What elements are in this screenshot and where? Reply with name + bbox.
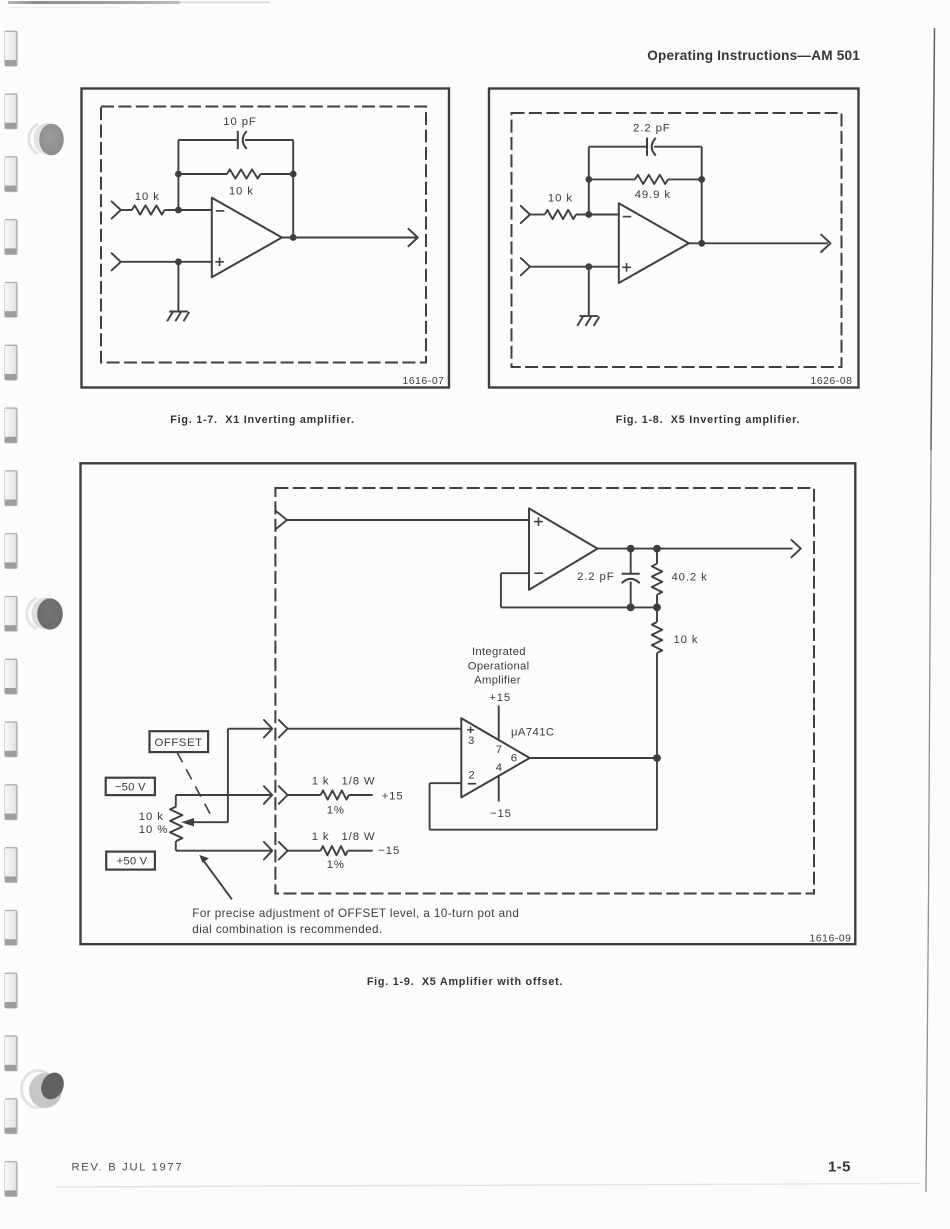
fig 1-7 wire feedback top (through capacitor) — [178, 139, 237, 141]
fig 1-9 wire U2 feedback loop — [430, 782, 462, 784]
fig 1-9 wire signal input — [287, 519, 529, 521]
fig 1-9 resistor R 1 k (middle) — [288, 794, 321, 796]
fig 1-7 op-amp non-inverting input marker (plus) — [215, 261, 224, 263]
fig 1-7 input terminal 2 (non-inverting) — [112, 253, 121, 270]
svg-text:1/8 W: 1/8 W — [341, 775, 375, 787]
svg-text:dial combination is recommende: dial combination is recommended. — [192, 923, 382, 936]
fig 1-9 node U2 output — [653, 754, 661, 762]
fig 1-7 node feedback left — [175, 171, 182, 178]
fig 1-9 offset input terminal (double chevron) — [264, 720, 272, 738]
fig 1-7 node feedback right — [290, 171, 297, 178]
fig 1-7 input terminal 1 (inverting path) — [112, 201, 121, 218]
svg-text:1616-09: 1616-09 — [810, 933, 852, 944]
svg-text:Operational: Operational — [468, 660, 530, 672]
fig 1-9 dashed link OFFSET to wiper — [177, 752, 214, 821]
fig 1-9 op-amp U1 (X5 amplifier) — [529, 508, 598, 589]
fig 1-8 node at inverting input — [585, 211, 592, 218]
fig 1-9 OFFSET control box — [150, 731, 209, 752]
fig 1-9 U1 non-inverting marker (plus) — [534, 521, 543, 523]
fig 1-7 node output — [290, 234, 297, 241]
fig 1-7 capacitor C 10 pF — [237, 131, 239, 149]
fig 1-9 resistor R 1 k (bottom) — [288, 850, 321, 852]
svg-text:−50 V: −50 V — [115, 781, 146, 793]
fig 1-8 capacitor C 2.2 pF — [646, 138, 648, 156]
svg-text:6: 6 — [511, 752, 517, 764]
figure 1-9 frame — [81, 463, 856, 944]
fig 1-9 label -50 V box — [106, 778, 155, 795]
svg-text:7: 7 — [496, 744, 502, 756]
svg-text:+15: +15 — [382, 790, 404, 802]
fig 1-9 terminal -15 feed (double chevron) — [264, 842, 272, 860]
fig 1-8 resistor R 49.9 k feedback — [635, 175, 668, 184]
svg-text:Fig. 1-9. X5 Amplifier with o: Fig. 1-9. X5 Amplifier with offset. — [367, 976, 563, 988]
svg-text:1 k: 1 k — [312, 831, 330, 843]
svg-text:4: 4 — [496, 762, 502, 774]
fig 1-9 potentiometer wiper arrow — [192, 821, 228, 823]
svg-text:1-5: 1-5 — [828, 1159, 851, 1176]
fig 1-9 potentiometer R 10 k — [175, 795, 177, 807]
fig 1-9 op-amp U2 uA741C — [461, 718, 529, 797]
svg-text:10 pF: 10 pF — [223, 116, 256, 128]
fig 1-9 capacitor C 2.2 pF (vertical) — [630, 549, 632, 574]
fig 1-9 wire pin 7 supply — [498, 706, 500, 741]
fig 1-7 resistor R 10 k input — [132, 205, 165, 214]
svg-text:10 k: 10 k — [548, 193, 573, 205]
fig 1-8 output arrow — [821, 235, 830, 252]
svg-text:1/8 W: 1/8 W — [341, 831, 375, 843]
fig 1-9 wire wiper riser — [227, 729, 229, 823]
svg-text:3: 3 — [468, 735, 474, 747]
fig 1-9 label +50 V box — [106, 852, 155, 870]
svg-text:10 k: 10 k — [674, 634, 699, 646]
fig 1-8 input terminal 1 (inverting path) — [521, 206, 530, 223]
fig 1-8 node at non-inverting input — [585, 263, 592, 270]
svg-text:1626-08: 1626-08 — [811, 376, 853, 387]
fig 1-9 wire U1 output — [598, 548, 793, 550]
svg-text:Integrated: Integrated — [472, 646, 526, 658]
fig 1-7 wire to ground — [177, 262, 179, 312]
fig 1-8 wire non-inverting input — [530, 266, 619, 268]
fig 1-9 resistor R 10 k (vertical) — [656, 607, 658, 622]
fig 1-8 amplifier boundary (dashed) — [512, 113, 842, 367]
fig 1-7 wire input to inverting input — [121, 209, 132, 211]
svg-text:10 k: 10 k — [229, 186, 254, 198]
fig 1-9 node output-capacitor — [627, 545, 635, 553]
svg-text:For precise adjustment of OFFS: For precise adjustment of OFFSET level, … — [192, 907, 519, 920]
fig 1-8 op-amp U1 — [619, 203, 689, 283]
svg-text:49.9 k: 49.9 k — [635, 189, 671, 201]
fig 1-8 op-amp inverting input marker (minus) — [623, 216, 632, 218]
fig 1-8 resistor R 10 k input — [545, 210, 576, 219]
svg-text:−15: −15 — [490, 808, 512, 820]
fig 1-9 node output-resistor — [653, 545, 661, 553]
fig 1-9 wire U2 output — [530, 757, 657, 759]
fig 1-9 U1 inverting marker (minus) — [534, 572, 543, 574]
fig 1-9 amplifier boundary (dashed) — [275, 488, 814, 894]
fig 1-8 wire to ground — [588, 267, 590, 316]
fig 1-8 wire output — [689, 242, 828, 244]
fig 1-7 resistor R 10 k feedback — [227, 169, 261, 178]
svg-text:OFFSET: OFFSET — [155, 737, 203, 749]
fig 1-9 wire feedback rail — [501, 606, 657, 608]
fig 1-8 ground — [579, 315, 598, 317]
svg-text:1%: 1% — [327, 805, 345, 817]
svg-text:Amplifier: Amplifier — [474, 675, 521, 687]
fig 1-8 wire feedback top (through capacitor) — [589, 146, 646, 148]
svg-text:μA741C: μA741C — [511, 727, 554, 739]
svg-text:1616-07: 1616-07 — [403, 376, 445, 387]
svg-text:10 %: 10 % — [139, 824, 168, 836]
fig 1-9 wire pot bottom rail — [176, 850, 272, 852]
svg-text:+50 V: +50 V — [117, 855, 148, 867]
fig 1-8 wire feedback resistor row — [589, 178, 635, 180]
fig 1-7 output arrow — [408, 229, 417, 246]
fig 1-9 note pointer arrow — [204, 861, 232, 900]
fig 1-8 op-amp non-inverting input marker (plus) — [622, 266, 631, 268]
fig 1-9 node feedback-capacitor — [627, 604, 635, 612]
fig 1-9 wire offset terminal to U2 pin3 — [228, 728, 272, 730]
svg-text:2.2 pF: 2.2 pF — [577, 571, 614, 583]
fig 1-7 op-amp U1 — [212, 198, 282, 277]
fig 1-8 node output — [698, 240, 705, 247]
fig 1-8 node feedback left — [585, 176, 592, 183]
fig 1-9 wire pot top rail — [176, 794, 272, 796]
figure 1-7 frame — [82, 89, 450, 388]
svg-text:40.2 k: 40.2 k — [672, 572, 708, 584]
fig 1-8 wire feedback left vertical — [588, 147, 590, 215]
fig 1-7 wire feedback left vertical — [177, 140, 179, 210]
svg-text:1 k: 1 k — [312, 775, 330, 787]
fig 1-9 resistor R 40.2 k (vertical) — [656, 549, 658, 564]
fig 1-9 wire U1 inverting feedback — [501, 572, 529, 574]
svg-text:+15: +15 — [489, 692, 511, 704]
fig 1-9 U2 plus marker (pin 3 input) — [467, 729, 474, 731]
fig 1-8 wire feedback right vertical — [701, 147, 703, 244]
fig 1-7 wire feedback right vertical — [292, 140, 294, 238]
fig 1-7 op-amp inverting input marker (minus) — [216, 210, 225, 212]
fig 1-7 node at non-inverting input — [175, 258, 182, 265]
figure 1-8 frame — [489, 89, 859, 388]
fig 1-9 terminal +15 feed (double chevron) — [264, 786, 272, 804]
fig 1-9 signal input terminal — [276, 511, 287, 529]
fig 1-9 output arrow — [791, 540, 800, 557]
svg-text:10 k: 10 k — [135, 191, 160, 203]
fig 1-7 wire output — [282, 237, 417, 239]
fig 1-7 ground — [169, 311, 188, 313]
svg-text:−15: −15 — [378, 845, 400, 857]
svg-text:2: 2 — [468, 769, 474, 781]
fig 1-7 node at inverting input — [175, 207, 182, 214]
svg-text:Operating Instructions—AM 501: Operating Instructions—AM 501 — [647, 48, 860, 63]
svg-text:2.2 pF: 2.2 pF — [633, 123, 670, 135]
fig 1-7 wire feedback resistor row — [178, 173, 227, 175]
fig 1-7 wire non-inverting input — [121, 261, 212, 263]
svg-text:Fig. 1-7. X1 Inverting amplif: Fig. 1-7. X1 Inverting amplifier. — [170, 414, 355, 426]
fig 1-8 node feedback right — [698, 176, 705, 183]
fig 1-8 wire input to inverting input — [530, 214, 545, 216]
svg-text:1%: 1% — [327, 859, 345, 871]
svg-text:Fig. 1-8. X5 Inverting amplif: Fig. 1-8. X5 Inverting amplifier. — [616, 414, 801, 426]
svg-text:REV. B JUL 1977: REV. B JUL 1977 — [72, 1162, 184, 1174]
fig 1-9 wire pin 4 supply — [498, 776, 500, 802]
fig 1-7 amplifier boundary (dashed) — [101, 107, 426, 363]
fig 1-9 node feedback-resistor — [653, 604, 661, 612]
fig 1-8 input terminal 2 (non-inverting) — [521, 258, 530, 275]
svg-text:10 k: 10 k — [139, 811, 164, 823]
